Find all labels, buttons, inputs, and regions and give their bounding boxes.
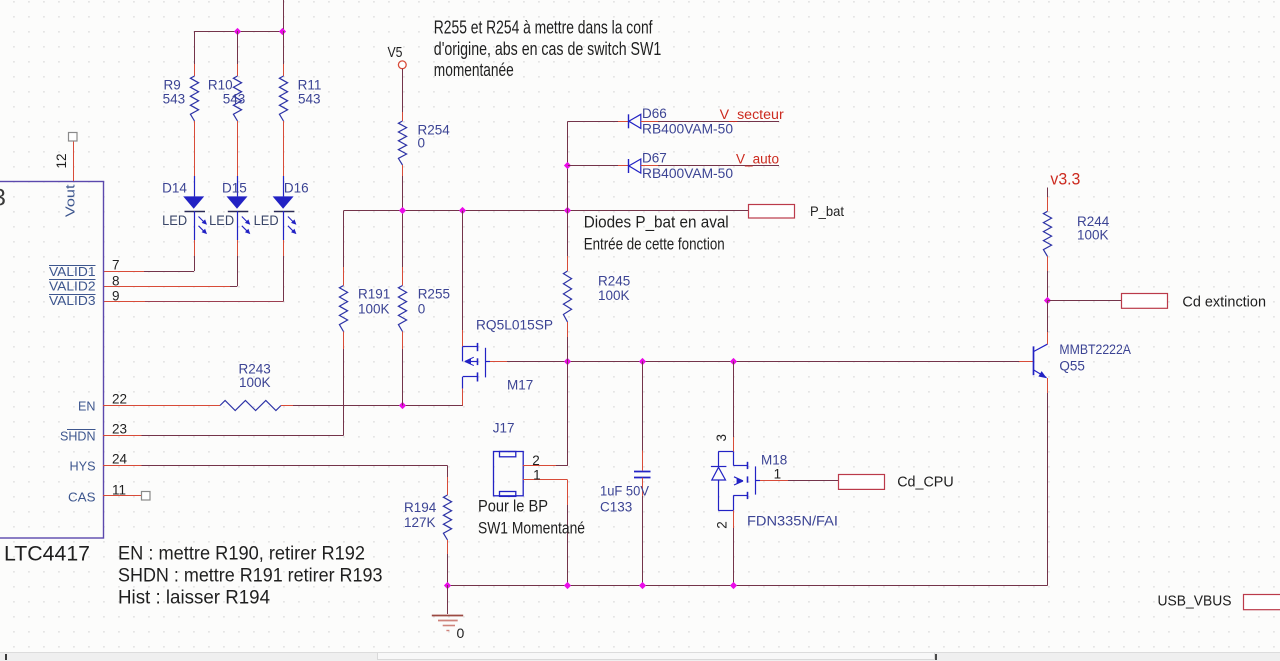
wire D14 to chip: [194, 256, 196, 271]
resistor R194 top pin: [447, 477, 449, 495]
diode D66 anode pin: [641, 121, 658, 123]
wire VALID3 to D16: [145, 301, 283, 303]
svg-text:LED: LED: [209, 212, 234, 228]
svg-text:R255: R255: [418, 287, 450, 302]
svg-text:R191: R191: [358, 287, 390, 302]
svg-text:M18: M18: [761, 453, 787, 468]
transistor Q55 MMBT2222A symbol: [1034, 344, 1048, 378]
overline VALID2: [49, 279, 96, 281]
resistor R255 0: [398, 286, 406, 332]
pin 24 HYS stub: [103, 465, 142, 467]
junction R11 top: [279, 28, 286, 35]
svg-text:9: 9: [112, 288, 120, 303]
resistor R244 top pin: [1047, 197, 1049, 211]
resistor R11 543: [279, 76, 287, 121]
wire gate line to C133: [642, 361, 644, 450]
pin 23 SHDN stub: [103, 435, 142, 437]
wire J17 pin1 down: [567, 480, 569, 505]
LED D15 bottom pin: [237, 240, 239, 256]
connector J17 body: [494, 452, 524, 497]
resistor R245 bottom pin: [567, 322, 569, 337]
ground symbol: [432, 616, 463, 631]
wire SHDN to R191: [142, 435, 344, 437]
wire D66 to net label: [658, 121, 779, 123]
svg-text:d'origine, abs en cas de switc: d'origine, abs en cas de switch SW1: [434, 39, 662, 59]
LED D14 cathode stub: [194, 211, 196, 240]
pin 12 Vout stub: [73, 141, 75, 181]
svg-text:Hist : laisser R194: Hist : laisser R194: [118, 588, 270, 609]
wire rail to M17 drain: [462, 211, 464, 330]
svg-text:V_auto: V_auto: [736, 152, 779, 167]
svg-text:22: 22: [112, 391, 127, 406]
svg-text:3: 3: [0, 185, 6, 212]
svg-text:C133: C133: [600, 500, 632, 515]
svg-text:SHDN: SHDN: [60, 428, 96, 443]
svg-text:CAS: CAS: [68, 489, 96, 504]
wire VALID2 pin stub: [103, 286, 230, 288]
port P_bat box: [749, 205, 795, 219]
svg-text:1: 1: [774, 466, 782, 481]
svg-text:1: 1: [533, 467, 541, 482]
capacitor C133 bottom pin: [642, 478, 644, 496]
svg-text:0: 0: [418, 136, 426, 151]
junction diode branch on rail: [564, 207, 571, 214]
wire v3.3 to R244: [1047, 188, 1049, 198]
port Cd extinction box: [1122, 294, 1168, 309]
wire VALID1 to D14: [144, 271, 194, 273]
svg-text:7: 7: [112, 257, 120, 272]
connector J17 pin 2 stub: [523, 465, 556, 467]
LED D16 light arrow 1: [288, 217, 297, 225]
wire V5 to R254: [402, 69, 404, 112]
wire R255 to EN: [402, 349, 404, 406]
pin 22 EN stub: [103, 405, 207, 407]
resistor R243 right pin: [281, 405, 293, 407]
resistor R245 top pin: [567, 256, 569, 271]
LED D14 anode stub: [194, 176, 196, 196]
svg-text:LTC4417: LTC4417: [4, 542, 90, 566]
svg-text:R255 et R254 à mettre dans la: R255 et R254 à mettre dans la conf: [434, 18, 653, 38]
capacitor C133 top pin: [642, 451, 644, 471]
svg-text:12: 12: [54, 153, 69, 168]
overline VALID3: [49, 294, 96, 296]
svg-text:2: 2: [714, 521, 729, 529]
wire R11 to D16: [283, 136, 285, 166]
connector J17 pin 1 stub: [523, 479, 568, 481]
LED D14 light arrow 1: [199, 217, 208, 225]
svg-text:100K: 100K: [1077, 228, 1109, 243]
LED D16 triangle: [273, 196, 294, 208]
resistor R254 0: [398, 121, 406, 165]
wire branch to D67: [568, 165, 618, 167]
wire branch to D66: [568, 121, 618, 123]
wire to ground: [447, 585, 449, 614]
wire R244 to Cd extinction node: [1047, 271, 1049, 300]
wire node to Cd extinction port: [1048, 300, 1122, 302]
resistor R9 top pin: [194, 64, 196, 76]
transistor M18 gate pin: [760, 480, 788, 482]
svg-text:Entrée de cette fonction: Entrée de cette fonction: [584, 235, 725, 254]
svg-text:100K: 100K: [598, 288, 630, 303]
LED D14 top pin: [194, 166, 196, 176]
resistor R255 bottom pin: [402, 332, 404, 350]
svg-text:100K: 100K: [239, 375, 271, 390]
wire VALID3 pin stub: [103, 301, 145, 303]
resistor R244 bottom pin: [1047, 256, 1049, 271]
resistor R243 left pin: [207, 405, 220, 407]
svg-text:D66: D66: [642, 106, 667, 121]
svg-text:R11: R11: [298, 78, 322, 93]
wire Q55 emitter to bottom rail: [1047, 393, 1049, 585]
overline VALID1: [49, 265, 96, 267]
resistor R11 bottom pin: [283, 121, 285, 136]
wire HYS to R194: [142, 465, 448, 467]
wire D67 to net label: [658, 165, 779, 167]
svg-text:2: 2: [532, 453, 540, 468]
resistor R11 top pin: [283, 64, 285, 76]
wire R11 top: [283, 31, 285, 64]
port USB_VBUS box: [1244, 595, 1280, 610]
wire R194 to bottom rail: [447, 554, 449, 585]
svg-text:D16: D16: [284, 181, 309, 196]
wire R9 to D14: [194, 136, 196, 166]
wire M18 source to bottom rail: [733, 528, 735, 585]
svg-text:RB400VAM-50: RB400VAM-50: [642, 166, 733, 181]
resistor R191 top pin: [343, 267, 345, 286]
resistor R10 bottom pin: [237, 121, 239, 136]
wire R254 to rail: [402, 176, 404, 211]
svg-text:J17: J17: [493, 421, 515, 436]
wire R10 top: [237, 31, 239, 64]
resistor R194 bottom pin: [447, 540, 449, 554]
svg-text:D14: D14: [162, 181, 187, 196]
no-connect square pin 12: [69, 133, 78, 142]
transistor Q55 emitter pin: [1047, 378, 1049, 393]
junction R194-ground on bottom rail: [444, 582, 451, 589]
svg-text:Pour le BP: Pour le BP: [478, 497, 548, 516]
LED D15 anode stub: [237, 176, 239, 196]
svg-text:R194: R194: [404, 500, 437, 515]
transistor Q55 base pin: [1019, 361, 1034, 363]
transistor M17 gate pin: [490, 361, 507, 363]
svg-text:FDN335N/FAI: FDN335N/FAI: [747, 514, 838, 529]
wire D16 to chip: [283, 256, 285, 302]
svg-text:v3.3: v3.3: [1050, 170, 1080, 189]
svg-text:127K: 127K: [404, 515, 436, 530]
svg-text:momentanée: momentanée: [434, 60, 514, 80]
wire rail to R245: [567, 211, 569, 256]
LED D15 cathode stub: [237, 211, 239, 240]
no-connect square pin 11: [142, 492, 151, 501]
resistor R10 top pin: [237, 64, 239, 76]
resistor R9 543: [190, 76, 198, 121]
svg-text:SHDN : mettre R191 retirer R19: SHDN : mettre R191 retirer R193: [118, 566, 383, 587]
svg-text:R245: R245: [598, 274, 630, 289]
LED D16 top pin: [283, 166, 285, 176]
junction C133 on bottom rail: [639, 582, 646, 589]
svg-text:1uF 50V: 1uF 50V: [600, 484, 649, 499]
junction C133 on gate line: [639, 358, 646, 365]
svg-text:0: 0: [418, 302, 426, 317]
junction D67 branch: [564, 162, 571, 169]
svg-text:V5: V5: [388, 45, 403, 61]
svg-text:SW1 Momentané: SW1 Momentané: [478, 519, 585, 538]
wire R191 to rail: [343, 211, 345, 267]
svg-text:R10: R10: [208, 78, 233, 93]
svg-text:USB_VBUS: USB_VBUS: [1158, 594, 1232, 610]
transistor M17 source pin: [462, 389, 464, 406]
junction R254-R255 on rail: [399, 207, 406, 214]
junction R255 on EN: [399, 402, 406, 409]
wire VALID2 to D15: [230, 286, 237, 288]
resistor R191 bottom pin: [343, 332, 345, 350]
svg-text:RQ5L015SP: RQ5L015SP: [476, 318, 553, 333]
wire rail to R255: [402, 211, 404, 267]
resistor R244 100K: [1043, 211, 1051, 256]
resistor R254 bottom pin: [402, 165, 404, 176]
LED D15 light arrow 2: [242, 226, 251, 234]
transistor M17 RQ5L015SP symbol: [463, 343, 491, 389]
wire C133 to bottom rail: [642, 496, 644, 585]
svg-text:543: 543: [223, 92, 246, 107]
transistor M18 FDN335N symbol: [711, 452, 760, 511]
LED D16 anode stub: [283, 176, 285, 196]
junction M18 drain on gate line: [730, 358, 737, 365]
svg-text:VALID3: VALID3: [49, 293, 96, 308]
overline SHDN: [67, 429, 96, 431]
diode D67 cathode pin: [618, 165, 628, 167]
LED D15 cathode bar: [228, 211, 249, 213]
svg-text:P_bat: P_bat: [810, 203, 844, 219]
LED D15 light arrow 1: [242, 217, 251, 225]
transistor M18 source pin: [733, 510, 735, 528]
svg-text:VALID1: VALID1: [49, 264, 96, 279]
resistor R254 top pin: [402, 112, 404, 121]
LED D16 cathode bar: [274, 211, 295, 213]
LED D15 triangle: [227, 196, 248, 208]
svg-text:MMBT2222A: MMBT2222A: [1059, 342, 1131, 357]
svg-text:V_secteur: V_secteur: [720, 107, 785, 122]
svg-text:543: 543: [163, 92, 186, 107]
diode D67 anode pin: [641, 165, 658, 167]
svg-text:Diodes P_bat en aval: Diodes P_bat en aval: [584, 213, 729, 232]
diode D67 cathode bar: [628, 159, 630, 173]
pin 11 CAS stub: [103, 495, 142, 497]
junction M18 source on bottom rail: [730, 582, 737, 589]
svg-text:EN : mettre R190, retirer R192: EN : mettre R190, retirer R192: [118, 544, 365, 565]
svg-text:R9: R9: [164, 78, 181, 93]
LED D14 light arrow 2: [199, 226, 208, 234]
LED D16 bottom pin: [283, 240, 285, 256]
svg-text:Q55: Q55: [1059, 359, 1085, 374]
wire gate line to M18 drain: [733, 361, 735, 437]
port Cd_CPU box: [839, 475, 885, 490]
svg-text:543: 543: [298, 92, 321, 107]
resistor R194 127K: [443, 495, 451, 540]
wire R191 vertical lower: [343, 349, 345, 436]
svg-text:0: 0: [457, 625, 465, 641]
svg-text:100K: 100K: [358, 302, 390, 317]
resistor R255 top pin: [402, 267, 404, 286]
diode D66 cathode pin: [618, 121, 628, 123]
resistor R10 543: [233, 76, 241, 121]
LED D14 cathode bar: [185, 211, 206, 213]
svg-text:M17: M17: [507, 378, 533, 393]
junction R245-J17 on gate line: [564, 358, 571, 365]
junction R10 top: [234, 28, 241, 35]
wire diode branch vertical: [567, 121, 569, 211]
IC U? LTC4417 body: [0, 182, 104, 539]
junction J17 pin1 on bottom rail: [564, 582, 571, 589]
svg-text:8: 8: [112, 274, 120, 289]
wire top feed to R11 from off-screen: [283, 0, 285, 31]
svg-text:RB400VAM-50: RB400VAM-50: [642, 121, 733, 136]
wire J17 pin1 to bottom rail: [567, 505, 569, 585]
wire R10 to D15: [237, 136, 239, 166]
resistor R243 100K: [220, 401, 281, 411]
wire node to Q55 collector: [1047, 300, 1049, 332]
LED D16 cathode stub: [283, 211, 285, 240]
resistor R245 100K: [563, 271, 571, 322]
resistor R9 bottom pin: [194, 121, 196, 136]
svg-text:VALID2: VALID2: [49, 279, 96, 294]
wire HYS down to R194: [447, 466, 449, 478]
svg-text:LED: LED: [162, 212, 187, 228]
transistor M17 drain pin: [462, 330, 464, 347]
svg-text:Cd_CPU: Cd_CPU: [897, 475, 954, 491]
svg-text:LED: LED: [254, 212, 279, 228]
wire battery rail: [344, 210, 749, 212]
wire bottom rail: [448, 585, 1048, 587]
svg-text:Vout: Vout: [63, 184, 78, 217]
wire M18 gate to Cd_CPU port: [788, 480, 838, 482]
transistor Q55 collector pin: [1047, 332, 1049, 345]
wire top rail above R9 R10 R11: [194, 31, 283, 33]
svg-text:24: 24: [112, 451, 128, 466]
junction Cd extinction node: [1044, 297, 1051, 304]
wire J17 pin2 to gate line: [556, 465, 568, 467]
LED D16 light arrow 2: [288, 226, 297, 234]
svg-text:3: 3: [714, 434, 729, 442]
svg-text:D15: D15: [222, 181, 247, 196]
junction M17 drain on rail: [459, 207, 466, 214]
LED D14 bottom pin: [194, 240, 196, 256]
LED D15 top pin: [237, 166, 239, 176]
svg-text:23: 23: [112, 421, 127, 436]
resistor R191 100K: [339, 286, 347, 332]
svg-text:Cd extinction: Cd extinction: [1182, 294, 1266, 311]
diode D67 triangle: [629, 159, 641, 173]
wire D15 to chip: [237, 256, 239, 286]
wire R245 to gate line: [567, 337, 569, 361]
wire gate line to Q55 base: [507, 361, 1019, 363]
svg-text:EN: EN: [78, 398, 96, 413]
diode D66 cathode bar: [628, 114, 630, 128]
wire VALID1 pin stub: [103, 271, 144, 273]
svg-text:HYS: HYS: [70, 458, 96, 473]
wire EN to M17 source corner: [293, 405, 463, 407]
diode D66 triangle: [629, 114, 641, 128]
wire R9 top: [194, 31, 196, 64]
wire J17 pin2 vertical: [567, 361, 569, 465]
power symbol V5: [398, 61, 406, 69]
capacitor C133 plates: [634, 472, 651, 478]
transistor M18 drain pin: [733, 437, 735, 452]
LED D14 triangle: [183, 196, 204, 208]
svg-text:D67: D67: [642, 151, 667, 166]
